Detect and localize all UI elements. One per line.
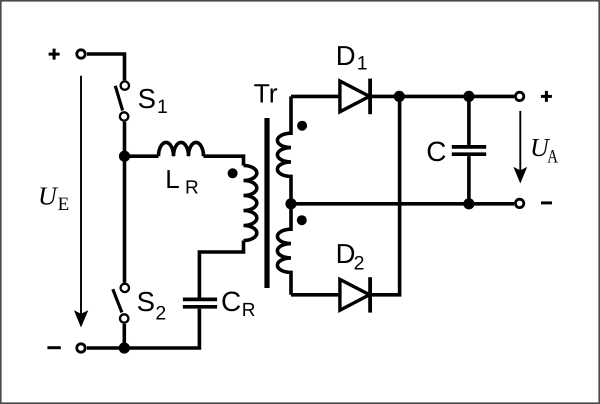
wire input + to S1 <box>87 54 125 80</box>
wire S2 to node B <box>123 324 127 348</box>
wire node A to S2 <box>123 156 127 282</box>
label S1 <box>138 83 168 118</box>
label L_R <box>165 164 198 198</box>
label C_R <box>221 286 256 321</box>
wire node A to L_R <box>125 154 159 158</box>
polarity dot primary <box>228 168 238 178</box>
switch S1 <box>115 81 129 120</box>
label D1 <box>336 40 368 75</box>
transformer secondary top winding <box>277 96 291 203</box>
svg-text:R: R <box>242 300 256 321</box>
svg-text:2: 2 <box>354 252 365 274</box>
svg-text:S: S <box>137 286 155 317</box>
svg-text:L: L <box>165 164 179 194</box>
transformer primary winding <box>244 166 257 241</box>
diode D1 <box>340 79 370 115</box>
label - input <box>47 346 60 349</box>
switch S2 <box>113 284 129 323</box>
node D junction dot <box>463 91 474 102</box>
label + output <box>541 91 552 102</box>
input - terminal <box>77 344 85 352</box>
capacitor C <box>452 147 486 154</box>
node A junction dot <box>119 151 130 162</box>
svg-text:1: 1 <box>357 53 368 75</box>
label U_A <box>530 133 558 168</box>
wire node D to output + terminal <box>469 95 514 99</box>
svg-text:U: U <box>38 181 59 210</box>
label S2 <box>137 286 167 325</box>
output + terminal <box>515 92 523 100</box>
voltage arrow U_E <box>74 76 88 328</box>
wire node D to capacitor C <box>467 96 471 145</box>
wire node C to node D <box>399 95 469 99</box>
polarity dot secondary bottom <box>297 215 307 225</box>
wire secondary bottom to D2 <box>291 293 338 297</box>
input + terminal <box>77 50 85 58</box>
center tap junction dot <box>285 198 296 209</box>
svg-text:E: E <box>58 194 70 215</box>
capacitor C_R <box>183 299 217 306</box>
transformer secondary bottom winding <box>277 204 291 295</box>
label D2 <box>336 238 365 274</box>
polarity dot secondary top <box>297 121 307 131</box>
diode D2 <box>340 277 370 312</box>
wire primary to C_R <box>199 241 243 298</box>
node C junction dot <box>394 91 405 102</box>
node E junction dot <box>463 198 474 209</box>
svg-text:2: 2 <box>155 303 166 325</box>
output - terminal <box>515 199 523 207</box>
wire node B to input - terminal <box>87 346 124 350</box>
wire secondary top to D1 <box>291 95 338 99</box>
wire node C to D2 cathode <box>372 96 400 294</box>
wire center tap to node E <box>291 202 469 206</box>
svg-text:Tr: Tr <box>254 78 278 108</box>
inductor L_R <box>159 142 204 156</box>
voltage arrow U_A <box>513 111 527 184</box>
transformer core <box>264 118 269 288</box>
svg-text:D: D <box>336 40 356 71</box>
svg-text:C: C <box>426 136 446 167</box>
wire D1 to node C <box>372 95 399 99</box>
wire node E to output - terminal <box>469 202 514 206</box>
node B junction dot <box>119 342 130 353</box>
label - output <box>541 201 552 204</box>
wire L_R to primary <box>204 156 244 165</box>
svg-text:D: D <box>336 238 356 269</box>
wire C_R to node B <box>124 309 199 348</box>
svg-text:1: 1 <box>157 96 168 118</box>
wire capacitor C to node E <box>467 156 471 204</box>
wire S1 to node A <box>123 122 127 156</box>
label U_E <box>38 181 69 215</box>
svg-text:R: R <box>185 177 199 198</box>
svg-text:A: A <box>547 147 558 168</box>
svg-text:C: C <box>221 286 241 317</box>
svg-text:S: S <box>138 83 156 114</box>
label + input <box>49 49 60 60</box>
